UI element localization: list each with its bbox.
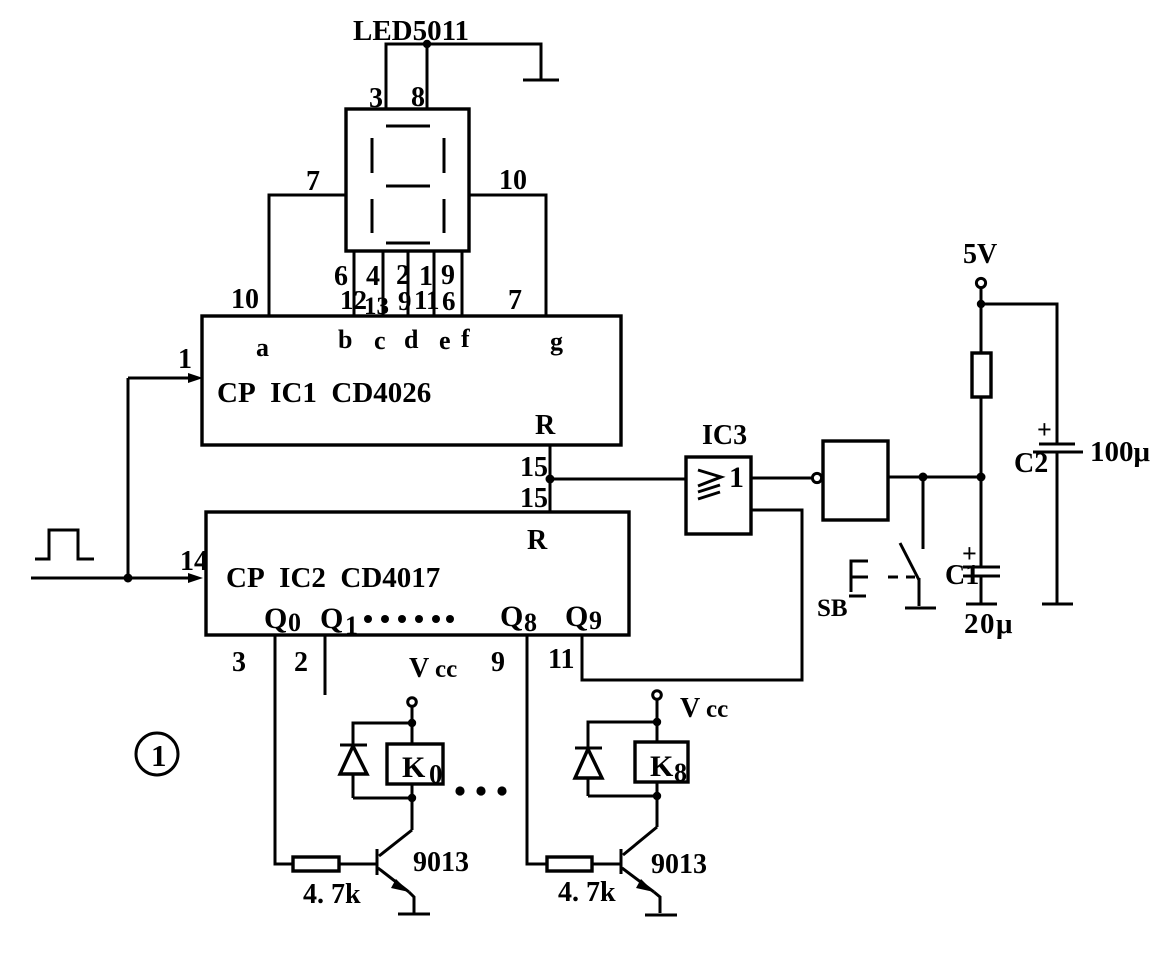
pin 1 label — [178, 344, 192, 375]
capacitor C2 — [1014, 415, 1083, 479]
svg-text:cc: cc — [706, 696, 728, 723]
svg-text:Q: Q — [264, 602, 287, 635]
wire clock bus vertical — [127, 378, 130, 578]
svg-text:4. 7k: 4. 7k — [303, 879, 361, 910]
svg-text:g: g — [550, 327, 563, 356]
4.7k label relay1 — [303, 879, 361, 910]
seven-segment digit — [372, 126, 444, 243]
wire Vcc to coil node relay1 — [411, 706, 414, 744]
svg-text:2: 2 — [294, 647, 308, 678]
svg-text:cc: cc — [435, 656, 457, 683]
svg-text:K: K — [650, 750, 674, 783]
switch SB actuator — [849, 561, 915, 596]
svg-text:a: a — [256, 333, 269, 362]
wire buffer output node — [888, 476, 981, 479]
wire display pin7 (left) to IC1 pin10 — [269, 195, 346, 316]
display pin labels row — [334, 260, 455, 292]
svg-text:9: 9 — [398, 286, 412, 316]
wire segment b stub — [353, 251, 356, 316]
ground C2 — [1042, 603, 1073, 606]
svg-text:12: 12 — [340, 285, 367, 315]
wire coil bottom relay2 — [656, 782, 659, 827]
pin 8 label — [411, 82, 425, 113]
svg-text:CP IC2 CD4017: CP IC2 CD4017 — [226, 562, 440, 594]
junction RC node — [977, 473, 986, 482]
ground emitter relay2 — [645, 914, 677, 917]
wire node to switch — [922, 477, 925, 549]
wire node to C1 — [980, 477, 983, 567]
junction Vcc relay2 — [653, 718, 661, 726]
svg-text:1: 1 — [345, 611, 358, 640]
pin 7 label — [306, 166, 320, 197]
pin 9 label Q8 — [491, 647, 505, 678]
wire Q1 stub — [324, 635, 327, 695]
wire diode bottom branch relay1 — [353, 797, 412, 800]
junction 5V branch — [977, 300, 985, 308]
svg-text:9: 9 — [491, 647, 505, 678]
IC2 internal labels — [226, 525, 602, 640]
Vcc label relay1 — [409, 653, 457, 684]
diode VD1 — [340, 745, 367, 798]
diode VD2 — [575, 748, 602, 796]
wire input to IC2 pin14 — [31, 573, 203, 583]
IC1 internal labels — [217, 324, 563, 441]
pin 15 label upper — [520, 452, 548, 483]
wire IC1 R to IC2 R and IC3 — [550, 445, 686, 512]
pin 14 label — [180, 546, 208, 577]
svg-text:Q: Q — [565, 600, 588, 633]
figure number 1 — [136, 733, 178, 775]
svg-text:C2: C2 — [1014, 448, 1048, 479]
svg-text:9: 9 — [589, 606, 602, 635]
wire Vcc to coil node relay2 — [656, 699, 659, 742]
svg-text:1: 1 — [178, 344, 192, 375]
dots between Q1 and Q8 — [364, 615, 454, 623]
op IC2 CD4017 body — [206, 512, 629, 635]
ground C1 — [966, 603, 997, 606]
wire segment e stub — [433, 251, 436, 316]
wire 5V to resistor — [980, 288, 983, 353]
junction switch tap — [919, 473, 928, 482]
wire segment d stub — [407, 251, 410, 316]
pin 10 label — [499, 165, 527, 196]
wire 5V branch to C2 — [981, 304, 1057, 444]
svg-text:+: + — [1037, 415, 1052, 444]
svg-text:9013: 9013 — [651, 849, 707, 880]
svg-text:8: 8 — [674, 758, 687, 787]
pin 3 label Q0 — [232, 647, 246, 678]
wire display pin10 (right) to IC1 pin7 — [469, 195, 546, 316]
SB label — [817, 595, 848, 622]
svg-text:CP IC1 CD4026: CP IC1 CD4026 — [217, 377, 431, 409]
C1 value 20u — [964, 608, 1014, 640]
svg-text:C1: C1 — [945, 560, 979, 591]
svg-text:V: V — [680, 693, 700, 724]
svg-text:b: b — [338, 325, 352, 354]
resistor 4.7k relay1 — [293, 857, 339, 871]
IC3 gate symbol — [698, 461, 744, 499]
pin 3 label — [369, 83, 383, 114]
svg-text:c: c — [374, 326, 386, 355]
svg-text:100μ: 100μ — [1090, 436, 1151, 468]
svg-text:11: 11 — [414, 285, 440, 315]
junction coil bottom relay1 — [408, 794, 416, 802]
resistor R1 — [972, 353, 991, 397]
pin 11 label Q9 — [548, 644, 574, 675]
wire coil bottom relay1 — [411, 784, 414, 830]
wire display top pins 3,8 to ground — [386, 44, 541, 109]
buffer U4 body — [823, 441, 888, 520]
op-amp IC3 gate body — [686, 457, 751, 534]
wire segment f stub — [461, 251, 464, 316]
svg-text:5V: 5V — [963, 239, 997, 270]
Vcc terminal relay2 — [653, 691, 662, 700]
wire CP input to IC1 pin1 — [128, 373, 203, 383]
pin 2 label Q1 — [294, 647, 308, 678]
5V terminal — [976, 278, 985, 287]
svg-text:0: 0 — [288, 608, 301, 637]
switch SB lever — [900, 543, 919, 580]
C2 value 100u — [1090, 436, 1151, 468]
display DS LED5011 body — [346, 109, 469, 251]
svg-text:1: 1 — [151, 738, 167, 773]
svg-text:20μ: 20μ — [964, 608, 1014, 640]
junction clock — [124, 574, 133, 583]
wire diode top branch relay2 — [588, 722, 657, 748]
9013 label relay2 — [651, 849, 707, 880]
wire C2 to ground — [1056, 452, 1059, 603]
svg-text:Q: Q — [500, 600, 523, 633]
svg-text:4: 4 — [366, 261, 380, 292]
IC1 pin labels row — [231, 284, 522, 320]
transistor Q1 9013 — [377, 830, 414, 913]
svg-text:f: f — [461, 324, 470, 353]
wire base relay1 — [339, 863, 377, 866]
wire resistor to node — [980, 397, 983, 477]
wire C1 to ground — [980, 576, 983, 603]
IC3 label — [702, 420, 747, 451]
junction top — [423, 40, 431, 48]
svg-text:e: e — [439, 326, 451, 355]
Vcc label relay2 — [680, 693, 728, 724]
junction R node — [546, 475, 555, 484]
wire diode bottom branch relay2 — [588, 795, 657, 798]
svg-text:15: 15 — [520, 452, 548, 483]
wire Q8 pin9 to resistor relay2 — [527, 635, 547, 864]
wire IC3 output to inverter — [751, 477, 812, 480]
dots between relays — [455, 786, 506, 795]
wire Q0 pin3 to resistor relay1 — [275, 635, 293, 864]
label LED5011 — [353, 15, 469, 47]
svg-text:d: d — [404, 325, 419, 354]
5V label — [963, 239, 997, 270]
wire segment c stub — [382, 251, 385, 316]
svg-text:SB: SB — [817, 595, 848, 622]
svg-text:IC3: IC3 — [702, 420, 747, 451]
9013 label relay1 — [413, 847, 469, 878]
capacitor C1 — [945, 539, 1000, 591]
4.7k label relay2 — [558, 877, 616, 908]
wire Q9 feedback to IC3 — [582, 510, 802, 680]
ground (display common) — [523, 79, 559, 82]
transistor Q2 9013 — [621, 827, 660, 913]
inverter bubble — [812, 473, 821, 482]
svg-text:0: 0 — [429, 759, 443, 789]
svg-text:6: 6 — [442, 286, 456, 316]
svg-text:14: 14 — [180, 546, 208, 577]
wire base relay2 — [592, 863, 621, 866]
junction coil bottom relay2 — [653, 792, 661, 800]
svg-text:1: 1 — [729, 461, 744, 494]
svg-text:3: 3 — [232, 647, 246, 678]
junction Vcc relay1 — [408, 719, 416, 727]
svg-text:R: R — [527, 525, 548, 556]
svg-text:LED5011: LED5011 — [353, 15, 469, 47]
ground emitter relay1 — [398, 913, 430, 916]
svg-text:V: V — [409, 653, 429, 684]
svg-text:8: 8 — [524, 608, 537, 637]
ground switch — [905, 607, 936, 610]
svg-text:7: 7 — [306, 166, 320, 197]
svg-text:4. 7k: 4. 7k — [558, 877, 616, 908]
input pulse symbol — [35, 530, 94, 559]
pin 15 label lower — [520, 483, 548, 514]
resistor 4.7k relay2 — [547, 857, 592, 871]
svg-text:10: 10 — [231, 284, 259, 315]
relay K0 body — [387, 744, 443, 789]
op IC1 CD4026 body — [202, 316, 621, 445]
svg-text:9013: 9013 — [413, 847, 469, 878]
relay K8 body — [635, 742, 688, 787]
svg-text:R: R — [535, 410, 556, 441]
svg-text:10: 10 — [499, 165, 527, 196]
svg-text:Q: Q — [320, 602, 343, 635]
Vcc terminal relay1 — [408, 698, 417, 707]
svg-text:7: 7 — [508, 285, 522, 316]
wire switch to ground — [918, 578, 921, 606]
wire diode top branch relay1 — [353, 723, 412, 745]
svg-text:11: 11 — [548, 644, 574, 675]
svg-text:15: 15 — [520, 483, 548, 514]
svg-text:K: K — [402, 751, 426, 784]
